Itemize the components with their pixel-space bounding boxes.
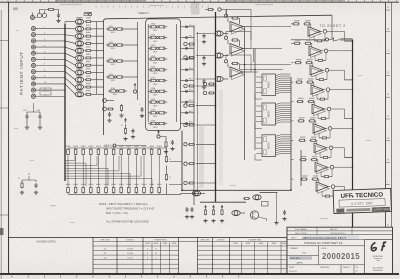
grid labels 4	[88, 146, 93, 185]
ferrite bead L3	[75, 34, 83, 39]
resistor R8	[85, 64, 104, 66]
wire feedback verticals	[251, 27, 254, 63]
op-amp U20 stage	[291, 20, 327, 38]
svg-text:D: D	[387, 70, 389, 74]
ferrite bead L10	[75, 84, 83, 89]
box3 inner vertical	[300, 150, 302, 186]
bus wire x244	[244, 27, 246, 161]
wire op-amp U26 output	[333, 148, 353, 158]
wire q1 to ground	[259, 193, 277, 221]
grid resistor RB12	[150, 186, 153, 194]
grid resistor RT12	[150, 148, 153, 156]
transformer T1	[37, 10, 47, 18]
bead bottom left	[192, 191, 200, 196]
table header texts	[100, 239, 262, 241]
capacitor C22	[139, 104, 144, 118]
frame top smudges	[55, 0, 145, 1]
wire buffer A out	[125, 60, 138, 62]
buffer cell B7	[148, 88, 167, 96]
op-amp U27 stage	[291, 156, 334, 174]
ferrite bead L9	[75, 77, 83, 82]
op-amp U1	[230, 22, 245, 35]
ic U12 block	[256, 135, 276, 157]
resistor R5	[85, 42, 104, 44]
op-amp U25 stage	[291, 117, 332, 135]
svg-text:DES CODE :: DES CODE :	[295, 233, 308, 235]
svg-text:BUF = (VCC + VS): BUF = (VCC + VS)	[106, 211, 128, 215]
grid resistor RT6	[105, 148, 108, 156]
op-amp U24 stage	[291, 98, 331, 116]
ic U11 bottom corner wire	[255, 123, 262, 129]
supply node VDD circle	[103, 99, 114, 103]
wire op-amp U25 output	[332, 127, 353, 129]
svg-text:B: B	[387, 27, 389, 31]
divider cluster 5	[184, 162, 216, 165]
frame ruler left ticks	[0, 41, 9, 216]
divider cluster 2	[184, 104, 216, 107]
notes text block	[99, 202, 154, 224]
buffer cell A4	[106, 74, 125, 82]
buffer box inner rail left	[147, 24, 149, 122]
title bottom row	[287, 265, 365, 274]
frame border left	[8, 3, 10, 274]
svg-text:TL062: TL062	[127, 258, 134, 260]
svg-text:4: 4	[147, 253, 148, 255]
wire buffer A out	[125, 28, 138, 30]
input network row 2	[196, 53, 228, 66]
svg-text:11: 11	[155, 248, 157, 250]
capacitor C21	[107, 112, 111, 122]
divider cluster 6	[184, 181, 216, 184]
grid labels 8	[119, 146, 124, 185]
resistor feedback R41	[228, 39, 240, 46]
wire buffer A out	[125, 44, 138, 46]
wire stage 5 vertical link	[319, 130, 330, 138]
supply arrow +12V A	[133, 84, 136, 94]
bus rail x197	[197, 32, 199, 190]
resistor R9	[85, 71, 104, 73]
ground bottom right	[274, 221, 278, 225]
grid resistor RB10	[135, 186, 138, 194]
divider cluster 4	[184, 143, 216, 146]
grid resistor RB4	[90, 186, 93, 194]
svg-text:20002015: 20002015	[322, 252, 360, 261]
frame border bottom thick	[0, 273, 399, 275]
wire bottom right h193	[260, 192, 278, 194]
gray smudge column 2	[219, 90, 224, 185]
svg-text:DEVICE: DEVICE	[217, 240, 225, 242]
resistor R56 inter-row	[320, 156, 331, 158]
buffer cell A1	[106, 26, 125, 34]
grid labels 13	[157, 146, 162, 185]
svg-text:8: 8	[147, 258, 148, 260]
svg-text:CODE :: CODE :	[321, 248, 329, 250]
svg-text:AD620: AD620	[268, 141, 271, 149]
wire op-amp U28 output	[335, 187, 353, 197]
resistor R71 with ground	[18, 178, 24, 194]
connector J1 pin 9	[31, 76, 65, 80]
capacitor C32 with ground	[37, 110, 43, 129]
buffer cell B4	[148, 56, 167, 64]
resistor R58 inter-row	[322, 195, 333, 197]
supply cluster mid resistor	[121, 124, 128, 141]
connector arrow to sheet 2	[326, 38, 353, 41]
wire buffer B6 out	[181, 80, 194, 82]
wire buffer B7 out	[181, 90, 194, 92]
wire bead row diagonal	[65, 41, 75, 44]
resistor R50 inter-row	[314, 40, 325, 42]
resistor R22 vertical	[119, 104, 123, 117]
resistor R21	[103, 107, 114, 111]
table vertical dividers right group	[198, 237, 230, 273]
buffer cell A2	[106, 42, 125, 50]
grid labels 12	[149, 146, 154, 185]
resistor R57 inter-row	[321, 176, 332, 178]
ic U10 bottom corner wire	[255, 93, 262, 99]
logo text biomedical	[373, 255, 383, 262]
grid wire column 8	[120, 156, 122, 186]
grid wire column 7	[113, 156, 115, 186]
resistor R51 inter-row	[315, 59, 326, 61]
ruler texture above shield box	[96, 5, 208, 8]
svg-text:POWER PINS: POWER PINS	[249, 239, 262, 241]
grid resistor RT11	[143, 148, 146, 156]
ferrite bead L1	[75, 19, 83, 24]
svg-text:DES :: DES :	[291, 238, 297, 240]
top artifact smudge	[191, 2, 200, 15]
wire stage 6 vertical link	[320, 150, 331, 158]
grid wire column 6	[105, 156, 107, 186]
op-amp U23 stage	[291, 78, 330, 96]
title row dividers	[317, 227, 352, 234]
svg-text:REF. DES: REF. DES	[100, 240, 110, 242]
ferrite bead L6	[75, 55, 83, 60]
buffer cell B9	[148, 110, 167, 118]
ic U12 pin comb	[276, 135, 291, 155]
wire stage 8 vertical link	[322, 188, 333, 196]
connector J1 pin 7	[31, 63, 65, 67]
grid wires to box3	[160, 148, 182, 194]
svg-text:INPUT BURST FREQUENCY = 22.5 K: INPUT BURST FREQUENCY = 22.5 KHZ	[106, 207, 154, 211]
resistor R4	[85, 35, 104, 37]
wire buffer B4 out	[181, 58, 194, 60]
svg-text:E: E	[387, 92, 389, 96]
grid wire column 5	[97, 156, 99, 186]
ic U11 pin comb	[276, 103, 291, 124]
wire stage 3 vertical link	[317, 91, 328, 99]
box3 right edge	[290, 77, 292, 190]
unused gates table frame	[9, 237, 287, 273]
grid wire column 11	[143, 156, 145, 186]
grid resistor RB8	[120, 186, 123, 194]
svg-text:11: 11	[155, 253, 157, 255]
wire opamp outputs right	[251, 27, 291, 73]
corner mark top-left	[13, 8, 18, 11]
svg-text:FILE NAME :: FILE NAME :	[295, 228, 308, 231]
wire buffer A out	[125, 76, 138, 78]
connector J1 pin 12	[31, 94, 65, 98]
grid resistor RT5	[97, 148, 100, 156]
wire op-amp U3 out	[243, 71, 251, 73]
frame zone letters right	[387, 5, 389, 249]
transistor Q1	[250, 211, 258, 219]
svg-text:TO SHEET 2: TO SHEET 2	[320, 24, 346, 28]
wire op-amp U1 out	[243, 26, 251, 28]
label box text smudge	[42, 90, 50, 91]
frame ruler right ticks	[386, 10, 391, 272]
svg-text:G: G	[387, 136, 389, 140]
svg-text:+APPD: +APPD	[296, 261, 303, 264]
wire buffer B3 out	[181, 47, 194, 49]
svg-text:AD620: AD620	[268, 81, 271, 89]
title row file name	[287, 228, 393, 231]
bus rail x194	[193, 25, 195, 205]
svg-text:DATE: DATE	[289, 266, 295, 269]
grid resistor RT9	[128, 148, 131, 156]
svg-text:SHIELD 1: SHIELD 1	[138, 11, 150, 15]
divider cluster 1	[184, 84, 216, 87]
svg-text:UNUSED GATES: UNUSED GATES	[36, 240, 56, 243]
ferrite bead L7	[75, 63, 83, 68]
svg-text:4: 4	[147, 248, 148, 250]
ferrite bead L2	[75, 26, 83, 31]
resistor R55 inter-row	[319, 137, 330, 139]
box3 left edge	[181, 131, 183, 191]
svg-text:AD620: AD620	[268, 110, 271, 118]
left margin blob	[0, 228, 4, 235]
logo text all rights reserved	[373, 267, 384, 272]
capacitor C33 with ground	[34, 180, 38, 194]
supply resistor bottom 1	[203, 206, 207, 223]
svg-text:PATIENT INPUT: PATIENT INPUT	[19, 51, 24, 95]
svg-text:C: C	[387, 49, 389, 53]
grid wire column 3	[82, 156, 84, 186]
wire op-amp U21 output	[328, 50, 353, 52]
grid resistor RB13	[158, 186, 161, 194]
wire stage 1 vertical link	[315, 53, 326, 61]
wire stage 4 vertical link	[318, 111, 329, 119]
ferrite bead L5	[75, 48, 83, 53]
resistor R2	[85, 21, 104, 23]
feedback loop U3	[224, 55, 251, 72]
svg-text:NOTE : INPUT SQUARES ± = 500mV: NOTE : INPUT SQUARES ± = 500mVpp	[99, 202, 148, 206]
connector J1 shell pins top	[30, 13, 37, 20]
title divider logo cell	[365, 240, 393, 274]
grid labels 7	[111, 146, 116, 185]
ic U11 block	[256, 103, 276, 125]
svg-text:DEVICE: DEVICE	[126, 240, 134, 242]
main right bus	[352, 40, 354, 271]
wire op-amp U27 output	[334, 166, 353, 168]
resistor R63 rect	[262, 202, 269, 207]
wire buffer B10 out	[181, 123, 194, 125]
wire bead row diagonal	[65, 66, 75, 73]
connector J1 pin 6	[31, 57, 65, 61]
grid resistor RT8	[120, 148, 123, 156]
feedback loop U1	[224, 10, 251, 27]
bus left vertical	[64, 24, 66, 181]
grid bottom bus	[68, 193, 181, 195]
wire shield to bus	[64, 22, 66, 24]
buffer cell B2	[148, 34, 167, 42]
wires above ic blocks	[240, 65, 291, 70]
ferrite bead L8	[75, 70, 83, 75]
ic U10 pin comb	[276, 74, 291, 94]
svg-text:SHEET 1: SHEET 1	[343, 267, 351, 269]
grid resistor RB2	[74, 186, 77, 194]
amp input cluster extra 2	[184, 56, 195, 59]
svg-text:H: H	[387, 158, 389, 162]
grid wire column 9	[128, 156, 130, 186]
grid wire column 1	[67, 156, 69, 186]
resistor R12	[85, 93, 104, 95]
title row description line2	[287, 240, 365, 245]
grid labels 9	[126, 146, 131, 185]
component cluster top of bead column	[84, 13, 92, 16]
op-amp U26 stage	[291, 136, 333, 154]
logo esaote glyphs	[371, 242, 386, 252]
connector J1 pin 8	[31, 70, 65, 74]
ground top-left	[56, 19, 60, 23]
buffer cell A5 small	[108, 88, 127, 96]
grid wire column 10	[135, 156, 137, 186]
wire stage 7 vertical link	[321, 169, 332, 177]
op-amp U2	[230, 44, 245, 57]
wire op-amp U23 output	[330, 89, 353, 91]
resistor R52 inter-row	[316, 79, 327, 81]
svg-text:AMPLIFICATION AND EMG INPUT: AMPLIFICATION AND EMG INPUT	[302, 236, 346, 240]
grid right link resistor RV2	[165, 174, 171, 181]
resistor feedback R40	[228, 17, 240, 24]
capacitor C31 with ground	[23, 110, 29, 129]
capacitor group bottom left	[185, 207, 194, 219]
gray smudge column	[199, 126, 204, 188]
grid resistor RB6	[105, 186, 108, 194]
sheet outer edge left	[0, 10, 2, 279]
table sub dividers power pins left	[152, 242, 170, 274]
buffer box inner rail right	[176, 24, 178, 122]
grid top bus	[68, 147, 160, 149]
wire into sheet2 connector	[291, 39, 326, 41]
table sub-header smudges	[145, 243, 286, 244]
buffer box outline	[146, 19, 181, 131]
connector J1 pin 1	[31, 27, 65, 31]
buffer cell B3	[148, 45, 167, 53]
connector J1 pin 11	[31, 88, 65, 92]
buffer cell B5	[148, 67, 167, 75]
wire bead row diagonal	[65, 35, 75, 36]
grid right link resistor RV1	[165, 156, 171, 163]
ferrite bead L11	[75, 92, 83, 97]
ic U12 bottom corner wire	[255, 154, 262, 160]
grid resistor RB1	[67, 186, 70, 194]
grid resistor RT2	[74, 148, 77, 156]
title row des code	[287, 233, 393, 235]
svg-text:REF. DES: REF. DES	[200, 240, 210, 242]
resistor R61	[243, 198, 250, 200]
resistor R53 inter-row	[317, 98, 328, 100]
svg-text:POWER PINS: POWER PINS	[154, 239, 167, 241]
resistor R6	[85, 50, 104, 52]
wire c31 c32 top	[27, 103, 40, 112]
grid resistor RT13	[158, 148, 161, 156]
connector J1 pin 3	[31, 39, 65, 43]
buffer cell B1	[148, 24, 167, 32]
wire bead row diagonal	[65, 53, 75, 58]
grid fan lines	[65, 156, 152, 186]
supply arrow +12V C	[158, 131, 160, 135]
cluster bead under amp 3b	[203, 91, 215, 94]
box3 bottom edge	[182, 189, 291, 191]
svg-text:TL064: TL064	[127, 248, 134, 250]
bead R62	[253, 195, 261, 200]
wire bead row diagonal	[65, 59, 75, 65]
frame border right inner	[385, 2, 387, 273]
feedback loop U2	[224, 32, 251, 49]
label box under connector	[40, 88, 51, 95]
wire op-amp U22 output	[329, 70, 353, 80]
svg-text:12: 12	[356, 270, 358, 272]
grid resistor RT10	[135, 148, 138, 156]
connector J1 pin 4	[31, 45, 65, 49]
frame border top	[0, 1, 399, 3]
svg-text:PA1.J6: PA1.J6	[330, 228, 338, 231]
grid labels 1	[66, 146, 71, 185]
wire bead row diagonal	[65, 21, 75, 23]
title checked cell	[287, 255, 319, 264]
svg-text:K: K	[387, 223, 389, 227]
op-amp U3	[230, 67, 245, 80]
svg-text:CHECKED: CHECKED	[290, 258, 301, 260]
scan specks	[14, 4, 371, 223]
capacitor bottom far right	[282, 210, 286, 221]
bus wire x255	[254, 49, 256, 151]
grid resistor RT1	[67, 148, 70, 156]
ic U10 block	[256, 74, 276, 96]
wire bottom left h193	[180, 192, 205, 194]
wire bottom bus h202	[200, 201, 246, 203]
capacitor C23 mid	[131, 129, 135, 139]
resistor feedback R42	[228, 62, 240, 69]
wire op-amp U2 out	[243, 48, 251, 50]
wire shield corner right	[331, 15, 333, 39]
log0 terminal circle	[104, 144, 146, 148]
grid labels 11	[142, 146, 147, 185]
wire buffer B8 out	[181, 101, 194, 103]
svg-text:20/20002015/L1: 20/20002015/L1	[330, 233, 347, 235]
svg-text:A: A	[387, 5, 389, 9]
frame border right outer	[391, 2, 393, 273]
capacitor C101 top-left	[55, 10, 59, 14]
resistor R101 top-left	[47, 9, 55, 11]
grid resistor RT4	[90, 148, 93, 156]
grid wire column 4	[90, 156, 92, 186]
resistor R10	[85, 79, 104, 81]
grid wire column 13	[158, 156, 160, 186]
connector J1 pin 10	[31, 82, 65, 86]
wire buffer B2 out	[181, 37, 194, 39]
svg-text:4: 4	[155, 258, 156, 260]
grid labels 10	[134, 146, 139, 185]
grid wire column 2	[75, 156, 77, 186]
wire bead row diagonal	[65, 72, 75, 80]
svg-text:G.B.: G.B.	[302, 252, 307, 254]
bead bottom mid	[232, 210, 245, 215]
buffer cell B6	[148, 77, 167, 85]
frame ruler bottom ticks	[12, 276, 239, 278]
wire stage 0 vertical link	[314, 33, 325, 41]
grid resistor RB5	[97, 186, 100, 194]
